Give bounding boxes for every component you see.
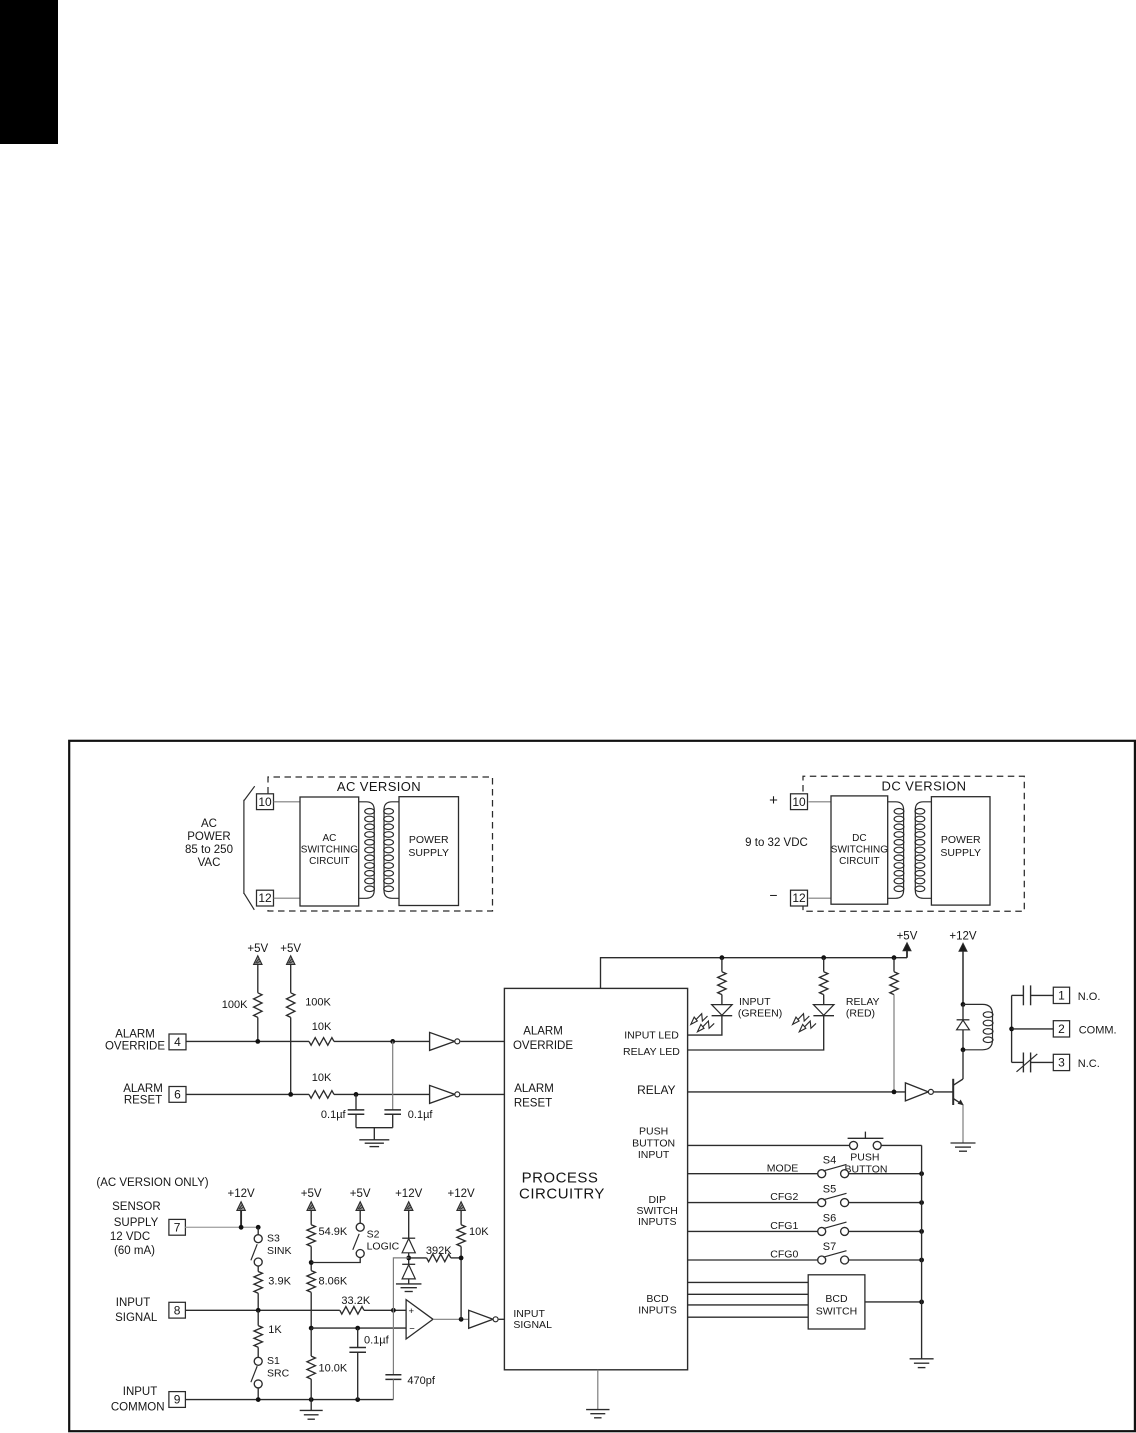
contact N.O. (1012, 994, 1024, 996)
svg-text:9: 9 (174, 1393, 181, 1407)
svg-text:N.O.: N.O. (1078, 991, 1101, 1003)
svg-text:ALARM: ALARM (115, 1028, 155, 1040)
svg-text:+5V: +5V (897, 931, 918, 943)
wire 54.9K to 8.06K (310, 1246, 312, 1270)
resistor 33.2K (340, 1307, 364, 1315)
DIP switch row CFG1 (688, 1230, 818, 1232)
junction output/10K (459, 1317, 464, 1322)
svg-text:10: 10 (792, 795, 806, 809)
wire joining caps to ground (356, 1127, 393, 1129)
capacitor 0.1uf (override) (392, 1041, 394, 1110)
wire emitter to ground (962, 1105, 964, 1143)
wire coil to transistor collector (962, 1050, 964, 1079)
wire clamp node to plus input (393, 1258, 408, 1310)
wire op-amp output (433, 1318, 469, 1320)
svg-text:10K: 10K (469, 1226, 489, 1238)
svg-text:PUSH: PUSH (850, 1152, 879, 1164)
svg-text:54.9K: 54.9K (319, 1226, 348, 1238)
wire inverter2 to process box (460, 1093, 504, 1095)
wire relay LED to process box (688, 1016, 824, 1050)
resistor 8.06K (307, 1271, 315, 1293)
AC power source bracket (244, 786, 255, 910)
svg-text:S1: S1 (267, 1355, 280, 1367)
DIP switch row CFG0 (688, 1259, 818, 1261)
clamp diode D3 (402, 1263, 415, 1265)
switch common bus wire (921, 1145, 923, 1358)
svg-text:(60 mA): (60 mA) (114, 1245, 155, 1257)
svg-text:10K: 10K (312, 1021, 332, 1033)
process circuitry block (504, 988, 687, 1369)
junction reset/100K-B (288, 1092, 293, 1097)
LED input green (721, 995, 723, 1005)
terminal 12 (AC) (257, 890, 274, 906)
svg-text:INPUTS: INPUTS (638, 1216, 677, 1228)
junction 54.9K/S2 branch (309, 1260, 314, 1265)
junction signal/3.9K-1K (256, 1308, 261, 1313)
ground (clamp) (396, 1283, 422, 1285)
svg-text:POWER: POWER (187, 831, 230, 843)
junction common/S1 (256, 1397, 261, 1402)
resistor 10K (reset) (309, 1091, 334, 1099)
svg-text:CIRCUITRY: CIRCUITRY (519, 1186, 605, 1203)
svg-text:6: 6 (174, 1088, 181, 1102)
svg-text:BCD: BCD (825, 1293, 848, 1305)
push button contacts (850, 1141, 858, 1149)
BCD SWITCH block (808, 1275, 865, 1329)
svg-text:AC: AC (201, 818, 217, 830)
+5V rail wire (601, 958, 908, 989)
capacitor 470pf (392, 1310, 394, 1374)
svg-text:MODE: MODE (767, 1162, 799, 1174)
switch S1 SRC (254, 1357, 262, 1365)
clamp diode D2 (402, 1237, 415, 1239)
resistor 10K (override) (309, 1038, 334, 1046)
inverter U1 (alarm override) (430, 1032, 455, 1050)
svg-text:OVERRIDE: OVERRIDE (105, 1040, 165, 1052)
svg-text:100K: 100K (222, 999, 248, 1011)
resistor (relay LED) (823, 958, 825, 972)
svg-text:8: 8 (174, 1303, 181, 1317)
svg-text:9 to 32 VDC: 9 to 32 VDC (745, 837, 808, 849)
svg-text:ALARM: ALARM (123, 1083, 163, 1095)
terminal 7 (169, 1219, 186, 1235)
wire input signal segment 2 (364, 1309, 406, 1311)
svg-text:10.0K: 10.0K (319, 1363, 348, 1375)
wire 10.0K to ground (310, 1400, 312, 1411)
svg-text:POWER: POWER (941, 834, 981, 846)
junction rail/input-led resistor (720, 955, 725, 960)
svg-text:SIGNAL: SIGNAL (513, 1319, 552, 1331)
wire inverter5 to process box (499, 1318, 505, 1320)
svg-text:100K: 100K (305, 997, 331, 1009)
relay coil K1 (963, 1004, 993, 1049)
svg-text:SUPPLY: SUPPLY (408, 847, 449, 859)
ground (switch bus) (910, 1358, 934, 1360)
wire push button to bus (881, 1144, 921, 1146)
resistor (relay drive) (893, 958, 895, 972)
junction minus/0.1uf (355, 1326, 360, 1331)
svg-text:10K: 10K (312, 1072, 332, 1084)
svg-text:S5: S5 (823, 1183, 836, 1195)
DC VERSION dashed enclosure (803, 776, 1024, 911)
wire input common (185, 1399, 393, 1401)
switch S2 LOGIC (356, 1223, 364, 1231)
svg-text:SWITCHING: SWITCHING (301, 845, 358, 856)
contact common column wire (1011, 995, 1013, 1062)
op-amp U4 (406, 1300, 433, 1339)
svg-text:RELAY: RELAY (637, 1083, 675, 1097)
junction BCD/bus (919, 1300, 924, 1305)
svg-text:CFG0: CFG0 (770, 1249, 798, 1261)
svg-text:0.1µf: 0.1µf (408, 1109, 434, 1121)
svg-text:S3: S3 (267, 1232, 280, 1244)
svg-text:3: 3 (1058, 1056, 1065, 1070)
svg-text:(RED): (RED) (846, 1008, 875, 1020)
svg-text:3.9K: 3.9K (268, 1276, 291, 1288)
inverter U2 (alarm reset) (430, 1085, 455, 1103)
junction signal/470pf (391, 1308, 396, 1313)
svg-text:S2: S2 (367, 1228, 380, 1240)
svg-text:12 VDC: 12 VDC (110, 1231, 150, 1243)
resistor 100K (A) (254, 993, 262, 1018)
capacitor 0.1uf (reset) (355, 1094, 357, 1110)
svg-text:S7: S7 (823, 1241, 836, 1253)
junction reset/cap (354, 1092, 359, 1097)
svg-text:SUPPLY: SUPPLY (114, 1217, 159, 1229)
wire alarm-override segment 2 (334, 1040, 430, 1042)
svg-text:SENSOR: SENSOR (112, 1201, 161, 1213)
ground (transistor) (951, 1142, 976, 1144)
svg-text:+12V: +12V (395, 1188, 423, 1200)
svg-text:INPUT: INPUT (638, 1149, 670, 1161)
svg-text:0.1µf: 0.1µf (364, 1335, 390, 1347)
wire terminal10-DC switching (809, 801, 832, 803)
push button S4 actuator (848, 1137, 884, 1139)
terminal 3 (1053, 1054, 1069, 1070)
inverter U5 (input signal) (469, 1310, 493, 1328)
svg-text:−: − (409, 1324, 415, 1335)
junction minus line/8.06K (309, 1326, 314, 1331)
svg-text:2: 2 (1058, 1022, 1065, 1036)
resistor 54.9K (307, 1225, 315, 1247)
svg-text:INPUT: INPUT (116, 1297, 151, 1309)
resistor 10.0K (310, 1328, 312, 1356)
wire sensor supply (185, 1226, 258, 1228)
svg-text:POWER: POWER (409, 834, 449, 846)
inverter U3 (relay) (905, 1083, 928, 1101)
BCD input wires (688, 1281, 809, 1283)
svg-text:INPUT LED: INPUT LED (624, 1030, 679, 1042)
svg-text:PUSH: PUSH (639, 1126, 668, 1138)
wire push button input (688, 1144, 850, 1146)
svg-text:SWITCH: SWITCH (816, 1305, 857, 1317)
terminal 8 (169, 1302, 186, 1318)
relay line wire (688, 1091, 906, 1093)
contact N.C. (1012, 1061, 1024, 1063)
svg-text:AC VERSION: AC VERSION (337, 779, 421, 794)
transistor Q1 (952, 1079, 954, 1105)
resistor 10K (pullup) (457, 1225, 465, 1247)
resistor 3.9K (257, 1266, 259, 1272)
wire relay resistor to relay line (893, 995, 895, 1092)
svg-text:+: + (409, 1306, 415, 1317)
junction 392K/10K (459, 1256, 464, 1261)
svg-text:85 to 250: 85 to 250 (185, 844, 233, 856)
ground (alarm caps) (359, 1139, 389, 1141)
junction sensor/S3 (256, 1225, 261, 1230)
svg-text:S6: S6 (823, 1212, 836, 1224)
transformer T1 primary winding (AC) (359, 802, 375, 899)
junction sensor/+12V (239, 1225, 244, 1230)
junction override/100K-A (255, 1039, 260, 1044)
ground (process box) (597, 1370, 599, 1410)
svg-text:VAC: VAC (198, 857, 221, 869)
junction coil top (961, 1002, 966, 1007)
junction contacts/COMM (1009, 1027, 1014, 1032)
wire alarm-reset segment 1 (186, 1093, 309, 1095)
POWER SUPPLY block (AC) (399, 797, 459, 906)
svg-text:10: 10 (258, 795, 272, 809)
resistor 392K (409, 1257, 427, 1259)
svg-text:+12V: +12V (949, 931, 977, 943)
svg-text:S4: S4 (823, 1155, 836, 1167)
wire inverter1 to process box (460, 1040, 504, 1042)
svg-text:BCD: BCD (646, 1293, 669, 1305)
junction rail/relay resistor (892, 955, 897, 960)
svg-text:+12V: +12V (228, 1188, 256, 1200)
transformer T1 secondary winding (AC) (384, 802, 399, 899)
terminal 9 (169, 1392, 186, 1408)
wire clamp diode to ground (408, 1279, 410, 1284)
svg-text:12: 12 (792, 891, 806, 905)
ground (10.0K) (300, 1409, 323, 1411)
POWER SUPPLY block (DC) (931, 797, 990, 905)
svg-text:+5V: +5V (301, 1188, 322, 1200)
junction common/10.0K (309, 1397, 314, 1402)
wire 100K-B to reset line (290, 1017, 292, 1094)
wire 8.06K to minus line (310, 1292, 312, 1328)
svg-text:RELAY LED: RELAY LED (623, 1046, 680, 1058)
resistor (input LED) (721, 958, 723, 972)
svg-text:+5V: +5V (247, 943, 268, 955)
wire alarm-override segment 1 (186, 1040, 309, 1042)
wire input LED to process box (688, 1016, 722, 1035)
junction override/cap branch (390, 1039, 395, 1044)
wire between clamp diodes (408, 1253, 410, 1265)
svg-text:CIRCUIT: CIRCUIT (309, 856, 350, 867)
DIP switch row MODE (688, 1173, 818, 1175)
wire BCD switch to bus (865, 1301, 922, 1303)
flyback diode D1 (962, 1004, 964, 1019)
wire S1 to common (257, 1388, 259, 1400)
DIP switch row CFG2 (688, 1202, 818, 1204)
junction clamp node (406, 1256, 411, 1261)
capacitor 0.1uf (op-amp) (357, 1328, 359, 1347)
svg-text:RESET: RESET (124, 1095, 162, 1107)
wire inverter3 to transistor base (934, 1091, 953, 1093)
svg-text:+5V: +5V (350, 1188, 371, 1200)
svg-text:RESET: RESET (514, 1098, 552, 1110)
wire alarm-reset segment 2 (334, 1093, 430, 1095)
svg-text:INPUT: INPUT (739, 996, 771, 1008)
svg-text:+: + (769, 792, 778, 809)
terminal 12 (DC) (791, 890, 808, 906)
svg-text:INPUT: INPUT (123, 1386, 158, 1398)
svg-text:1K: 1K (268, 1324, 282, 1336)
svg-text:(GREEN): (GREEN) (738, 1008, 782, 1020)
contact COMM wire (1012, 1028, 1054, 1030)
svg-text:SINK: SINK (267, 1245, 292, 1257)
svg-text:OVERRIDE: OVERRIDE (513, 1040, 573, 1052)
wire terminal12-DC switching (809, 897, 832, 899)
svg-text:ALARM: ALARM (523, 1026, 563, 1038)
svg-text:470pf: 470pf (407, 1375, 435, 1387)
junction relay line/resistor (892, 1090, 897, 1095)
LED relay red (823, 995, 825, 1005)
svg-text:SUPPLY: SUPPLY (940, 847, 981, 859)
svg-text:1: 1 (1058, 988, 1065, 1002)
wire 10K to output line (460, 1246, 462, 1319)
transformer T2 secondary winding (DC) (915, 802, 931, 899)
terminal 4 (169, 1034, 186, 1050)
svg-text:LOGIC: LOGIC (367, 1240, 400, 1252)
svg-text:RELAY: RELAY (846, 996, 880, 1008)
svg-text:DC VERSION: DC VERSION (882, 779, 967, 794)
AC VERSION dashed enclosure (268, 777, 493, 911)
svg-text:392K: 392K (426, 1245, 452, 1257)
svg-text:PROCESS: PROCESS (522, 1170, 599, 1187)
wire S2 branch (311, 1258, 360, 1263)
wire input signal segment 1 (185, 1309, 339, 1311)
wire terminal12-AC switching (274, 897, 301, 899)
svg-text:−: − (769, 887, 777, 903)
svg-text:(AC VERSION ONLY): (AC VERSION ONLY) (96, 1177, 208, 1189)
op-amp minus input wire (311, 1327, 406, 1329)
AC SWITCHING CIRCUIT block (300, 797, 359, 906)
junction common/0.1uf (355, 1397, 360, 1402)
switch S3 SINK (257, 1227, 259, 1234)
svg-text:N.C.: N.C. (1078, 1058, 1100, 1070)
svg-text:+12V: +12V (448, 1188, 476, 1200)
svg-text:DIP: DIP (648, 1194, 666, 1206)
svg-text:+5V: +5V (280, 943, 301, 955)
terminal 10 (DC) (791, 794, 808, 810)
svg-text:SIGNAL: SIGNAL (115, 1312, 158, 1324)
wire 100K-A to override line (257, 1017, 259, 1041)
svg-text:8.06K: 8.06K (319, 1276, 348, 1288)
svg-text:CFG2: CFG2 (770, 1191, 798, 1203)
svg-text:CIRCUIT: CIRCUIT (839, 856, 880, 867)
wire terminal10-AC switching (274, 801, 301, 803)
schematic border frame (69, 741, 1135, 1431)
terminal 1 (1053, 987, 1069, 1003)
svg-text:SWITCHING: SWITCHING (831, 845, 888, 856)
svg-text:ALARM: ALARM (514, 1083, 554, 1095)
svg-text:7: 7 (174, 1220, 181, 1234)
junction coil bottom (961, 1047, 966, 1052)
svg-text:AC: AC (322, 833, 336, 844)
resistor 1K (254, 1326, 262, 1348)
terminal 2 (1053, 1021, 1069, 1037)
svg-text:12: 12 (258, 891, 272, 905)
junction rail/relay-led resistor (821, 955, 826, 960)
resistor 100K (B) (287, 993, 295, 1018)
transformer T2 primary winding (DC) (888, 802, 904, 899)
terminal 10 (AC) (257, 794, 274, 810)
terminal 6 (169, 1087, 186, 1103)
svg-text:4: 4 (174, 1035, 181, 1049)
svg-text:DC: DC (852, 833, 866, 844)
svg-text:SRC: SRC (267, 1367, 290, 1379)
svg-text:COMM.: COMM. (1079, 1024, 1117, 1036)
DC SWITCHING CIRCUIT block (831, 796, 888, 904)
page corner black block (0, 0, 58, 144)
svg-text:CFG1: CFG1 (770, 1220, 798, 1232)
svg-text:0.1µf: 0.1µf (321, 1109, 347, 1121)
svg-text:INPUTS: INPUTS (638, 1304, 677, 1316)
svg-text:33.2K: 33.2K (341, 1295, 370, 1307)
svg-text:COMMON: COMMON (111, 1401, 165, 1413)
